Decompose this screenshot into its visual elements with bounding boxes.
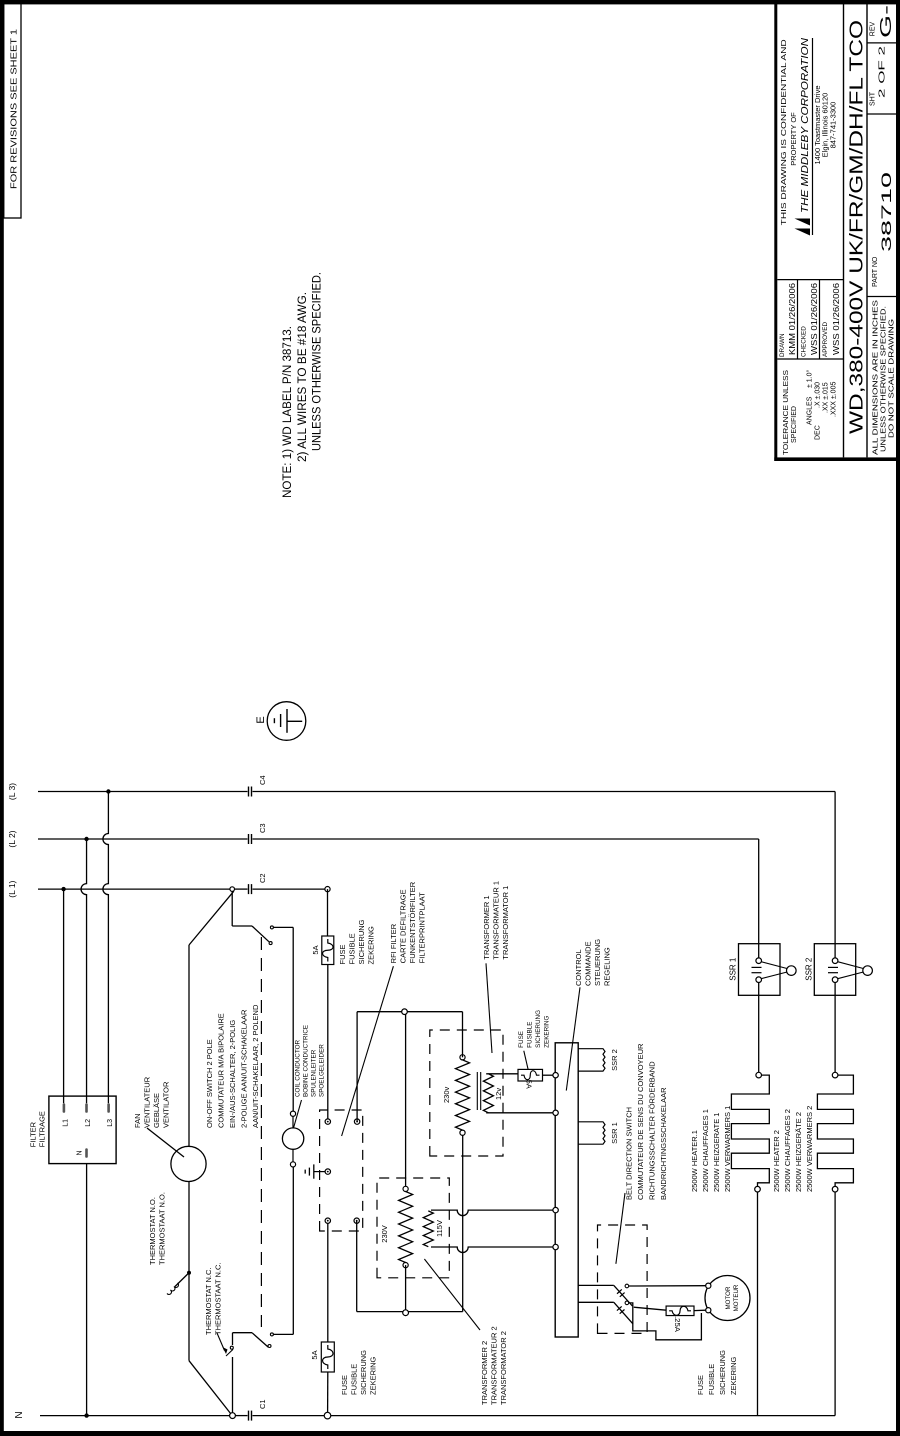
heater R2 element 2500W — [817, 1075, 853, 1186]
svg-text:VENTILATEUR: VENTILATEUR — [143, 1076, 152, 1128]
svg-text:FUSE: FUSE — [338, 944, 347, 964]
node junction: on-off switch node on L1 — [230, 887, 235, 892]
node heater1 in — [756, 1072, 762, 1078]
svg-text:DEC: DEC — [815, 425, 822, 440]
svg-text:COMMANDE: COMMANDE — [584, 941, 593, 986]
svg-text:TRANSFORMATEUR 1: TRANSFORMATEUR 1 — [492, 881, 501, 960]
svg-text:SSR 1: SSR 1 — [729, 957, 738, 981]
SSR1 contact bars — [752, 966, 762, 968]
SSR1 relay box — [739, 944, 781, 996]
svg-text:2500W CHAUFFAGES 2: 2500W CHAUFFAGES 2 — [783, 1109, 792, 1192]
svg-text:FUSIBLE: FUSIBLE — [707, 1364, 716, 1395]
SSR1 terminals — [756, 958, 762, 964]
svg-text:FOR REVISIONS SEE SHEET 1: FOR REVISIONS SEE SHEET 1 — [10, 28, 19, 189]
node junction: fan/switch return on N — [230, 1413, 236, 1419]
svg-text:5A: 5A — [525, 1080, 534, 1089]
wire fuse F2 to N rail — [327, 1372, 329, 1412]
border frame top — [0, 0, 4, 1436]
wire control to belt switch a — [578, 1284, 614, 1286]
leader fan label — [147, 1128, 184, 1157]
RFI terminal neutral in — [354, 1119, 359, 1124]
transformer T1 (dashed box) — [430, 1030, 503, 1156]
svg-text:FAN: FAN — [133, 1113, 142, 1128]
wire 115V to control (hop) — [431, 1210, 553, 1216]
svg-text:THE MIDDLEBY CORPORATION: THE MIDDLEBY CORPORATION — [799, 38, 811, 213]
RFI terminal line out — [325, 1218, 330, 1223]
svg-text:ANGLES: ANGLES — [807, 396, 814, 425]
svg-text:ZEKERING: ZEKERING — [367, 926, 376, 965]
leader transformer2 label — [424, 1259, 480, 1330]
SSR2 contact bars — [828, 966, 838, 968]
svg-text:WSS 01/26/2006: WSS 01/26/2006 — [810, 283, 819, 355]
svg-text:.25A: .25A — [673, 1316, 680, 1332]
svg-text:FUNKENTSTÖRFILTER: FUNKENTSTÖRFILTER — [408, 881, 417, 963]
svg-text:TRANSFORMATOR 2: TRANSFORMATOR 2 — [499, 1331, 508, 1405]
svg-text:2500W HEIZGERATE 1: 2500W HEIZGERATE 1 — [712, 1113, 721, 1192]
SSR1 actuator circle — [787, 966, 797, 976]
svg-text:38710: 38710 — [878, 172, 894, 252]
svg-text:PART NO: PART NO — [872, 256, 879, 287]
RFI terminal line in — [325, 1119, 330, 1124]
svg-text:COIL CONDUCTOR: COIL CONDUCTOR — [295, 1040, 302, 1097]
wire RFI line-side up to transformers — [356, 1012, 358, 1122]
capacitor C3 — [248, 834, 250, 844]
leader transformer1 label — [486, 963, 492, 1053]
capacitor C2 — [248, 884, 250, 894]
T1 primary 230v winding — [460, 1055, 465, 1060]
wire T2 primary bottom to neutral — [405, 1265, 407, 1310]
connector SSR1 stub — [578, 1122, 605, 1144]
node junction transformer feed — [402, 1009, 408, 1015]
node junction: thermostat NO tap — [187, 1271, 191, 1275]
T1 secondary 12v winding — [483, 1074, 493, 1113]
node junction T2 neutral — [403, 1310, 409, 1316]
svg-text:FILTER: FILTER — [29, 1121, 38, 1147]
svg-text:TRANSFORMER 2: TRANSFORMER 2 — [480, 1341, 489, 1405]
wire N rail — [40, 1415, 230, 1417]
belt switch S2 (dashed box) — [598, 1225, 648, 1333]
node junction: L2 filter tap — [84, 837, 88, 841]
wire switch node to fan — [189, 891, 234, 945]
svg-text:230v: 230v — [442, 1086, 451, 1103]
wire fuse F4 to motor — [694, 1309, 706, 1311]
wire coil to pole 2 — [292, 1167, 294, 1334]
svg-text:SICHERUNG: SICHERUNG — [718, 1350, 727, 1395]
wire filter N to N rail — [86, 1164, 88, 1416]
svg-text:WSS 01/26/2006: WSS 01/26/2006 — [832, 283, 841, 355]
svg-text:ZEKERING: ZEKERING — [729, 1356, 738, 1395]
wire SSR1 out to heater 1 — [758, 983, 760, 1073]
wire fuse F3 to control — [543, 1074, 554, 1076]
svg-text:.XXX ±.005: .XXX ±.005 — [831, 382, 838, 417]
border frame right — [0, 0, 900, 4]
capacitor C4 — [248, 787, 250, 797]
svg-text:WD,380-400V UK/FR/GM/DH/FL TCO: WD,380-400V UK/FR/GM/DH/FL TCO — [846, 20, 867, 434]
svg-text:FUSIBLE: FUSIBLE — [527, 1022, 534, 1048]
control terminal 12v+ — [553, 1073, 558, 1078]
leader fuse F3 label — [524, 1051, 528, 1070]
svg-text:REV: REV — [870, 21, 877, 36]
svg-text:(L 1): (L 1) — [7, 880, 17, 897]
svg-text:2500W VERWARMERS 2: 2500W VERWARMERS 2 — [805, 1106, 814, 1192]
wire node to transformer T2 — [405, 1015, 407, 1187]
node junction: RFI fuse return on N — [324, 1412, 331, 1419]
motor terminal 1 — [706, 1283, 711, 1288]
svg-text:AAN/UIT-SCHAKELAAR, 2 POLEND: AAN/UIT-SCHAKELAAR, 2 POLEND — [251, 1004, 260, 1128]
svg-text:KMM 01/26/2006: KMM 01/26/2006 — [788, 283, 797, 355]
svg-text:FUSIBLE: FUSIBLE — [348, 933, 357, 964]
title block frame — [774, 0, 777, 461]
wire SSR2 out to heater 2 — [834, 983, 836, 1073]
control terminal 12v- — [553, 1110, 558, 1115]
belt contact a — [625, 1284, 629, 1288]
fuse F2 5A neutral — [321, 1342, 334, 1372]
svg-text:TRANSFORMATOR 1: TRANSFORMATOR 1 — [501, 886, 510, 960]
control board A1 — [555, 1043, 578, 1337]
svg-text:REGELING: REGELING — [603, 947, 612, 986]
svg-text:SHT: SHT — [870, 91, 877, 106]
fuse F1 5A — [322, 936, 334, 965]
wire heater2 return to N — [834, 1192, 836, 1416]
svg-text:DO NOT SCALE DRAWING: DO NOT SCALE DRAWING — [889, 319, 896, 438]
switch S1 pole 2 — [273, 1333, 293, 1335]
SSR2 actuator links — [838, 962, 864, 969]
svg-text:APPROVED: APPROVED — [822, 322, 829, 357]
wire L3 to SSR2 — [834, 792, 836, 958]
svg-text:STEUERUNG: STEUERUNG — [593, 939, 602, 986]
svg-text:± 1.0°: ± 1.0° — [806, 369, 814, 388]
wire L2 rail — [38, 838, 248, 840]
svg-text:2 OF 2: 2 OF 2 — [878, 45, 887, 98]
svg-text:2500W VERWARMERS 1: 2500W VERWARMERS 1 — [723, 1106, 732, 1192]
node heater1 out — [755, 1186, 761, 1192]
leader thermostat NC arrow — [217, 1333, 225, 1351]
svg-text:CHECKED: CHECKED — [801, 326, 808, 357]
svg-text:MOTOR: MOTOR — [725, 1286, 732, 1309]
svg-text:2500W HEATER.1: 2500W HEATER.1 — [690, 1130, 699, 1192]
svg-text:C2: C2 — [258, 873, 267, 883]
SSR1 actuator links — [761, 962, 787, 969]
svg-text:FUSIBLE: FUSIBLE — [350, 1364, 359, 1395]
svg-text:ON-OFF SWITCH 2 POLE: ON-OFF SWITCH 2 POLE — [205, 1039, 214, 1128]
svg-text:SPECIFIED: SPECIFIED — [791, 406, 798, 443]
leader RFI label — [342, 966, 394, 1136]
svg-text:ZEKERING: ZEKERING — [544, 1016, 551, 1048]
svg-text:C1: C1 — [258, 1399, 267, 1409]
svg-text:FILTRAGE: FILTRAGE — [38, 1111, 47, 1147]
wire pole1 to coil — [292, 927, 294, 1111]
ground symbol at RFI — [314, 1171, 325, 1173]
filter pin L3 — [107, 1103, 110, 1113]
svg-text:PROPERTY OF: PROPERTY OF — [789, 112, 798, 166]
svg-text:RICHTUNGSSCHALTER FÖRDERBAND: RICHTUNGSSCHALTER FÖRDERBAND — [648, 1061, 657, 1200]
svg-text:ALL DIMENSIONS ARE IN INCHES: ALL DIMENSIONS ARE IN INCHES — [873, 300, 880, 455]
filter pin L1 — [63, 1103, 66, 1113]
svg-text:BANDRICHTINGSSCHAKELAAR: BANDRICHTINGSSCHAKELAAR — [659, 1087, 668, 1200]
svg-text:2500W CHAUFFAGES 1: 2500W CHAUFFAGES 1 — [701, 1109, 710, 1192]
wire L1 rail — [38, 888, 230, 890]
svg-text:ZEKERING: ZEKERING — [369, 1356, 378, 1395]
svg-text:(L 2): (L 2) — [7, 830, 17, 847]
svg-text:SPOELGELEIDER: SPOELGELEIDER — [319, 1044, 326, 1097]
svg-text:5A: 5A — [310, 1350, 319, 1359]
SSR2 terminals — [832, 958, 838, 964]
svg-text:CARTE DEFILTRAGE: CARTE DEFILTRAGE — [399, 889, 408, 963]
svg-text:847-741-3300: 847-741-3300 — [829, 102, 838, 149]
filter pin N — [85, 1148, 88, 1158]
svg-text:RFI FILTER: RFI FILTER — [389, 923, 398, 963]
svg-text:EIN-/AUS-SCHALTER, 2-POLIG: EIN-/AUS-SCHALTER, 2-POLIG — [228, 1020, 237, 1128]
RFI filter U1 (dashed box) — [320, 1110, 363, 1231]
svg-text:CONTROL: CONTROL — [574, 949, 583, 986]
svg-text:12v: 12v — [494, 1088, 503, 1100]
motor terminal 2 — [706, 1308, 711, 1313]
node junction: L3 filter tap — [106, 789, 110, 793]
border frame left — [0, 1431, 900, 1436]
thermostat B2 N.C. contact — [230, 1346, 233, 1349]
wire 12v to fuse F3 — [486, 1073, 518, 1075]
belt switch blade a — [614, 1285, 633, 1306]
svg-text:SICHERUNG: SICHERUNG — [357, 919, 366, 964]
svg-text:SICHERUNG: SICHERUNG — [535, 1010, 542, 1048]
middleby logo — [795, 229, 811, 236]
fuse F3 5A control — [518, 1069, 543, 1081]
svg-text:L3: L3 — [107, 1119, 114, 1127]
inductor L coil — [282, 1128, 303, 1149]
wire 115V low to control (hop) — [431, 1247, 553, 1253]
SSR2 actuator circle — [863, 966, 873, 976]
node junction: L1 filter tap — [61, 887, 65, 891]
svg-text:SPULENLEITER: SPULENLEITER — [311, 1049, 318, 1097]
svg-text:TOLERANCE UNLESS: TOLERANCE UNLESS — [783, 370, 790, 455]
svg-text:FUSE: FUSE — [696, 1375, 705, 1395]
wire T1 primary top — [462, 1012, 464, 1058]
inductor coil conductor terminals — [290, 1111, 295, 1116]
T2 secondary 115V winding — [423, 1211, 433, 1247]
filter pin L2 — [85, 1103, 88, 1113]
svg-text:SSR 2: SSR 2 — [805, 957, 814, 981]
wire L2 to filter (hop over L1) — [81, 839, 87, 1103]
svg-text:BELT DIRECTION SWITCH: BELT DIRECTION SWITCH — [625, 1107, 634, 1200]
svg-text:2-POLIGE AAN/UIT-SCHAKELAAR: 2-POLIGE AAN/UIT-SCHAKELAAR — [240, 1009, 249, 1128]
svg-text:MOTEUR: MOTEUR — [733, 1284, 740, 1311]
transformer T2 (dashed box) — [377, 1178, 449, 1278]
svg-text:FILTERPRINTPLAAT: FILTERPRINTPLAAT — [418, 892, 427, 963]
node terminal: L1 to fuse — [325, 886, 330, 891]
svg-text:N: N — [14, 1411, 25, 1418]
wire fan to thermostat — [188, 1182, 190, 1272]
svg-text:COMMUTATEUR M/A BIPOLAIRE: COMMUTATEUR M/A BIPOLAIRE — [217, 1013, 226, 1128]
wire L2 to SSR1 — [758, 839, 760, 958]
svg-text:C3: C3 — [258, 823, 267, 833]
wire RFI out to fuse F2 — [327, 1223, 329, 1342]
heater R1 element 2500W — [731, 1075, 769, 1186]
thermostat B1 N.O. contact blade — [175, 1274, 188, 1286]
svg-text:BOBINE CONDUCTRICE: BOBINE CONDUCTRICE — [303, 1025, 310, 1097]
svg-text:THIS DRAWING IS CONFIDENTIAL A: THIS DRAWING IS CONFIDENTIAL AND — [779, 39, 788, 226]
border frame bottom — [896, 0, 900, 1436]
switch S1 pole 1 — [231, 891, 233, 926]
svg-text:2) ALL WIRES TO BE #18 AWG.: 2) ALL WIRES TO BE #18 AWG. — [297, 292, 309, 462]
svg-text:SICHERUNG: SICHERUNG — [359, 1350, 368, 1395]
motor M2 — [705, 1276, 750, 1321]
svg-text:FUSE: FUSE — [518, 1031, 525, 1048]
leader control label — [566, 987, 580, 1090]
node heater2 out — [832, 1186, 838, 1192]
belt contact b — [625, 1301, 629, 1305]
svg-text:UNLESS OTHERWISE SPECIFIED.: UNLESS OTHERWISE SPECIFIED. — [881, 306, 888, 452]
svg-text:5A: 5A — [311, 945, 320, 954]
switch S1 mechanical link (dashed) — [260, 937, 262, 1327]
wire fuse F1 to RFI filter — [327, 965, 329, 1120]
svg-text:.X ±.030: .X ±.030 — [815, 382, 822, 408]
fuse F4 .25A — [666, 1306, 694, 1316]
wire L1 circle to fuse F1 — [327, 889, 329, 936]
node heater2 in — [832, 1072, 838, 1078]
wire control to belt switch b — [578, 1301, 614, 1303]
connector SSR2 stub — [578, 1049, 605, 1071]
RFI terminal earth — [325, 1169, 330, 1174]
wire L1 to filter — [63, 889, 65, 1103]
svg-text:SSR 1: SSR 1 — [610, 1122, 619, 1144]
svg-text:G-: G- — [878, 5, 895, 38]
svg-text:THERMOSTAAT N.C.: THERMOSTAAT N.C. — [214, 1262, 223, 1335]
svg-text:COMMUTATEUR DE SENS DU CONVOYE: COMMUTATEUR DE SENS DU CONVOYEUR — [636, 1043, 645, 1200]
revisions note box — [4, 3, 21, 218]
SSR2 relay box — [814, 944, 855, 996]
belt switch blade b — [614, 1302, 633, 1324]
svg-text:2500W HEATER 2: 2500W HEATER 2 — [772, 1130, 781, 1192]
wire L3 rail — [38, 791, 248, 793]
T1 core — [476, 1072, 478, 1110]
earth ground E — [267, 702, 306, 741]
svg-text:.XX ±.015: .XX ±.015 — [823, 382, 830, 413]
wire L3 to filter (hops over L2, L1) — [103, 792, 109, 1104]
svg-text:115V: 115V — [435, 1220, 444, 1237]
fan motor M1 — [171, 1146, 206, 1181]
svg-text:2500W HEIZGERÄTE 2: 2500W HEIZGERÄTE 2 — [794, 1112, 803, 1192]
svg-text:N: N — [77, 1150, 84, 1155]
svg-text:SSR 2: SSR 2 — [610, 1049, 619, 1071]
node junction: filter N tap — [84, 1413, 88, 1417]
svg-text:TRANSFORMATEUR 2: TRANSFORMATEUR 2 — [490, 1326, 499, 1405]
svg-text:TRANSFORMER 1: TRANSFORMER 1 — [482, 895, 491, 959]
wire contact a to motor — [629, 1285, 706, 1287]
wire contact b return — [629, 1303, 702, 1340]
capacitor C1 — [248, 1411, 250, 1421]
svg-text:GEBLÄSE: GEBLÄSE — [152, 1093, 161, 1128]
thermostat B1 sensing element — [167, 1283, 178, 1295]
svg-text:THERMOSTAT N.O.: THERMOSTAT N.O. — [148, 1197, 157, 1265]
leader coil label — [294, 1100, 302, 1128]
svg-text:230V: 230V — [380, 1225, 389, 1243]
svg-text:DRAWN: DRAWN — [779, 333, 786, 357]
wire heater1 return to N — [757, 1192, 759, 1416]
svg-text:VENTILATOR: VENTILATOR — [162, 1081, 171, 1128]
wire 12v low to control — [486, 1112, 553, 1114]
wire RFI neutral-side to transformer bottoms — [356, 1221, 358, 1312]
svg-text:THERMOSTAAT N.O.: THERMOSTAAT N.O. — [158, 1192, 167, 1265]
svg-text:FUSE: FUSE — [340, 1375, 349, 1395]
control terminal 115V — [553, 1207, 558, 1212]
wire thermostat to N diagonal — [188, 1273, 190, 1361]
svg-text:C4: C4 — [258, 775, 267, 785]
svg-text:L1: L1 — [62, 1119, 69, 1127]
control terminal 115V low — [553, 1244, 558, 1249]
T2 primary 230V winding — [403, 1186, 408, 1191]
svg-text:L2: L2 — [85, 1119, 92, 1127]
svg-text:(L 3): (L 3) — [7, 783, 17, 800]
svg-text:THERMOSTAT N.C.: THERMOSTAT N.C. — [204, 1268, 213, 1336]
svg-text:E: E — [255, 716, 267, 723]
svg-text:UNLESS OTHERWISE SPECIFIED.: UNLESS OTHERWISE SPECIFIED. — [312, 272, 324, 451]
wire blade a to fuse F4 — [634, 1307, 666, 1310]
svg-text:NOTE: 1) WD LABEL P/N 38713.: NOTE: 1) WD LABEL P/N 38713. — [282, 326, 294, 498]
leader belt switch label — [616, 1193, 625, 1264]
RFI terminal neutral out — [354, 1218, 359, 1223]
filter FL1 box — [49, 1096, 116, 1164]
